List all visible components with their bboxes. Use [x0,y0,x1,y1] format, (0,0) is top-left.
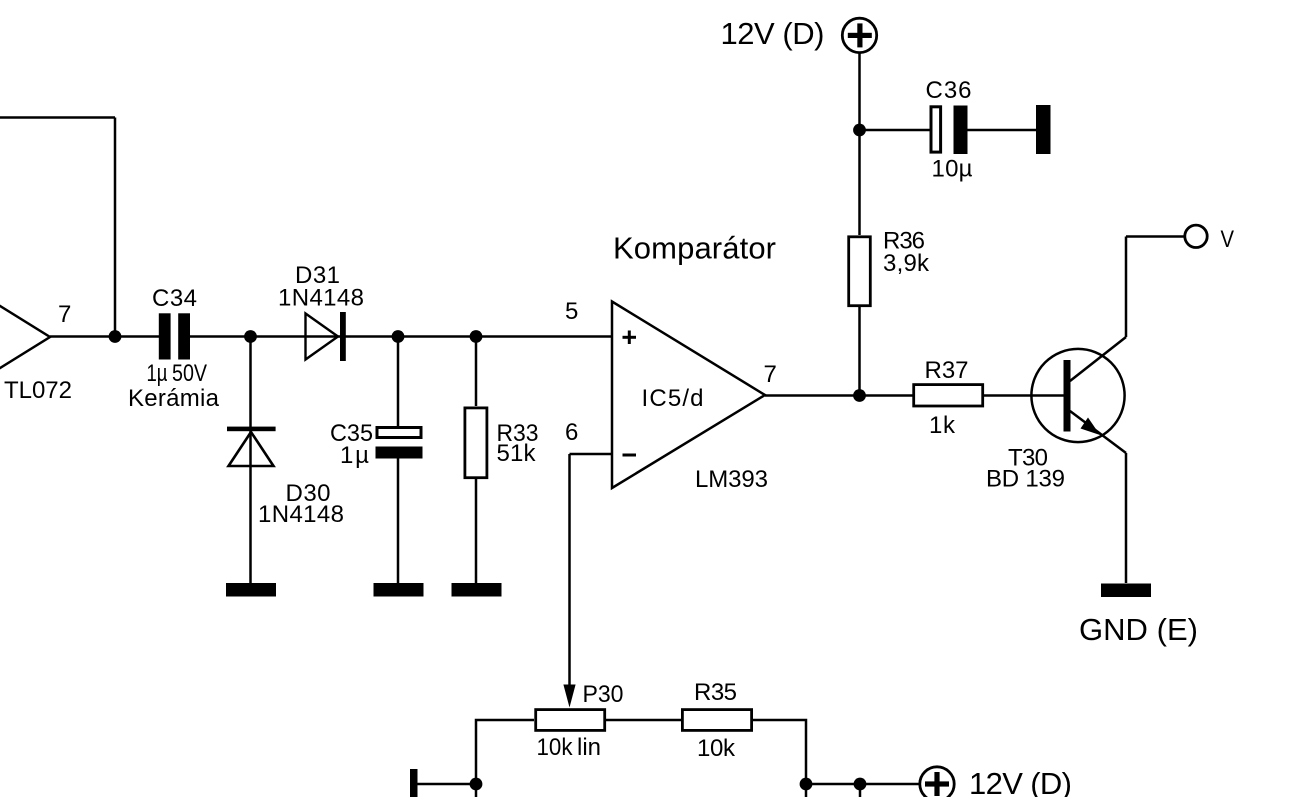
wire bottom rail to 12V symbol [806,783,921,786]
12V supply symbol top: circle [842,18,876,52]
junction node at comparator output [853,389,866,402]
svg-text:Kerámia: Kerámia [128,385,220,412]
svg-text:V: V [1221,226,1235,253]
wire P30 to R35 [606,719,681,722]
wire feedback top-left horizontal [0,116,115,119]
junction node at R33 [470,330,483,343]
svg-text:3,9k: 3,9k [883,250,930,277]
svg-text:7: 7 [764,361,777,388]
wire node to R33 top [475,337,478,407]
ground under D30 [226,583,276,597]
transistor T30 circle [1031,349,1124,442]
capacitor C36 plate positive [931,107,941,152]
svg-text:1N4148: 1N4148 [258,501,344,528]
wire feedback vertical down to node [114,118,117,337]
wire T30 collector diagonal [1070,337,1126,381]
junction node bottom 12V [854,778,867,791]
wire node through D30 to ground [249,337,252,584]
wire C35 bottom to ground [397,458,400,583]
wire R33 bottom to ground [475,476,478,583]
capacitor C36 plate negative [954,106,968,155]
svg-text:50V: 50V [172,360,207,387]
diode D30 triangle [229,432,274,466]
wire node down to R36 [858,130,861,235]
junction node bottom R35 [800,778,813,791]
minus input marker [623,454,637,457]
svg-text:10µ: 10µ [932,156,973,183]
12V supply symbol bottom: circle [920,767,954,797]
wire node to C36 [860,129,930,132]
transistor T30 emitter arrow [1081,418,1101,436]
svg-text:1N4148: 1N4148 [278,285,364,312]
junction node at C36/R36 [853,124,866,137]
wire R36 bottom to output node [858,305,861,396]
junction node at D30 [244,330,257,343]
svg-text:P30: P30 [583,681,624,708]
svg-text:51k: 51k [497,440,537,467]
svg-text:12V (D): 12V (D) [969,766,1072,797]
wire stub below node at 860 [859,784,862,797]
potentiometer P30 wiper arrowhead [563,685,575,708]
svg-text:TL072: TL072 [4,377,72,404]
resistor R33 body [465,408,487,478]
junction node on main wire at feedback [109,330,122,343]
wire C36 to terminal bar [967,129,1036,132]
wire op-amp output to C34 [50,335,159,338]
ground under R33 [452,583,502,597]
ground under C35 [374,583,424,597]
svg-text:10k: 10k [697,735,736,762]
svg-text:1k: 1k [929,412,956,439]
terminal bar bottom-left [410,769,418,797]
wire collector vertical up [1125,237,1128,338]
wire T30 emitter diagonal [1070,411,1126,453]
transistor T30 base bar [1064,360,1071,432]
12V top plus cross [848,33,872,38]
wire R37 to T30 base [984,394,1064,397]
potentiometer P30 body [536,710,605,731]
svg-text:12V (D): 12V (D) [721,16,825,51]
wire node to C35 top [397,337,400,428]
wire collector to V terminal [1126,235,1185,238]
diode D31 triangle [306,314,339,360]
wire pin 6 vertical down to P30 arrow [568,454,571,688]
resistor R35 body [682,710,751,731]
wire 12V supply down to node [858,52,861,131]
capacitor C34 plate left [159,313,171,359]
svg-text:6: 6 [565,419,578,446]
resistor R36 body [849,237,871,306]
junction node bottom-left [470,778,483,791]
svg-text:5: 5 [565,298,578,325]
op-amp U-TL072 (partially visible) [0,242,50,432]
svg-text:C36: C36 [926,77,972,104]
diode D31 cathode bar [340,312,346,361]
wire comparator output to R37 [765,394,913,397]
diode D30 cathode bar [227,427,276,432]
svg-text:C34: C34 [152,285,197,312]
junction node at C35 [392,330,405,343]
svg-text:7: 7 [58,301,71,328]
svg-text:Komparátor: Komparátor [613,231,776,266]
wire emitter vertical to ground [1125,453,1128,583]
svg-text:1µ: 1µ [147,360,168,387]
resistor R37 body [914,385,983,406]
wire terminal bar to node bottom-left [418,783,477,786]
wire comparator pin 6 horizontal [570,453,613,456]
wire R35 right lead and down past node [753,720,806,797]
svg-text:10k: 10k [537,734,574,761]
capacitor C35 top plate [377,428,421,438]
12V bottom plus cross [925,781,949,786]
svg-text:BD 139: BD 139 [986,466,1065,493]
svg-text:lin: lin [577,734,601,761]
svg-text:IC5/d: IC5/d [642,385,704,412]
ground under T30 emitter [1101,584,1151,598]
wire C34 through D31 to comparator pin 5 [190,335,612,338]
capacitor C34 plate right [178,313,190,359]
plus input marker [623,331,637,345]
terminal bar right of C36 [1036,105,1051,154]
svg-text:R37: R37 [925,357,969,384]
svg-text:LM393: LM393 [695,466,768,493]
svg-text:GND (E): GND (E) [1079,612,1198,647]
V output terminal circle [1185,225,1207,247]
capacitor C35 bottom plate [376,447,423,459]
svg-text:1µ: 1µ [340,442,369,469]
svg-text:R35: R35 [694,679,737,706]
op-amp comparator U-IC5/d [612,302,765,489]
wire P30 left lead and down past node [476,720,534,797]
